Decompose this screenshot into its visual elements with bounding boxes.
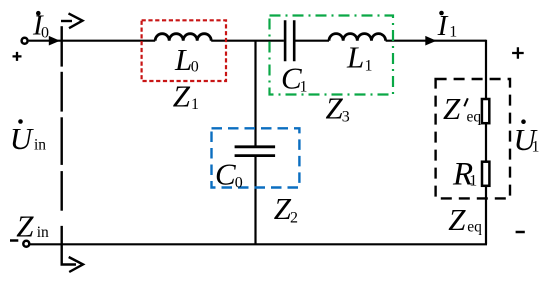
terminal (top-left input): [22, 38, 28, 44]
plus (top-left): [13, 52, 22, 61]
svg-text:0: 0: [191, 59, 199, 76]
box Zeq (black dashed): [436, 79, 510, 198]
inductor L1: [329, 34, 386, 41]
box Z3 (green dash-dot): [270, 16, 394, 95]
minus (bottom-right): [516, 231, 525, 234]
inductor L0: [155, 34, 211, 41]
capacitor C0: [235, 147, 276, 156]
Zin probe line dash segment 2: [61, 72, 63, 112]
svg-text:0: 0: [41, 24, 49, 41]
wire C0 branch lower: [254, 156, 256, 245]
svg-text:Z: Z: [16, 209, 34, 244]
svg-text:1: 1: [300, 79, 308, 96]
Zin measurement arrow (top): [61, 20, 72, 22]
wire right rail (down): [485, 40, 487, 245]
box Z2 (blue dashed): [212, 128, 300, 187]
box Z1 (red dashed): [142, 20, 226, 81]
svg-text:eq: eq: [467, 219, 482, 236]
Zin measurement arrow (bottom): [69, 257, 83, 272]
resistor R1: [482, 162, 489, 186]
wire L1 to right corner: [386, 40, 486, 42]
current arrow I0: [49, 36, 60, 46]
svg-text:Z: Z: [443, 91, 461, 126]
svg-text:1: 1: [191, 96, 199, 113]
Zin probe line dash segment 1: [61, 26, 63, 66]
svg-text:2: 2: [290, 210, 298, 227]
svg-text:Z: Z: [326, 90, 344, 125]
svg-text:0: 0: [235, 174, 243, 191]
svg-text:C: C: [215, 157, 236, 192]
svg-text:L: L: [346, 40, 364, 75]
svg-text:1: 1: [449, 24, 457, 41]
svg-text:L: L: [174, 42, 192, 77]
svg-text:1: 1: [532, 139, 540, 156]
wire between C1 and L1: [295, 40, 329, 42]
minus (bottom-left): [10, 239, 18, 242]
wire C0 branch upper: [254, 41, 256, 147]
svg-text:1: 1: [469, 173, 477, 190]
terminal (bottom-left input): [23, 241, 29, 247]
svg-text:U: U: [10, 121, 35, 156]
resistor Z'eq: [482, 99, 489, 123]
svg-text:Z: Z: [448, 202, 466, 237]
Zin probe line dash segment 3: [61, 117, 63, 165]
svg-text:Z: Z: [173, 78, 191, 113]
svg-text:3: 3: [342, 109, 350, 126]
plus (top-right): [512, 47, 524, 59]
svg-text:in: in: [34, 137, 46, 154]
svg-text:in: in: [37, 224, 49, 241]
svg-text:eq: eq: [467, 109, 482, 126]
Zin probe line dash segment 5 with corner: [62, 226, 76, 265]
current arrow I1: [425, 36, 436, 46]
capacitor C1: [285, 20, 294, 61]
wire bottom rail: [30, 243, 487, 245]
svg-text:1: 1: [365, 58, 373, 75]
wire top rail left segment: [29, 40, 156, 42]
Zin probe line dash segment 4: [61, 171, 63, 211]
wire between L0 and C1: [211, 40, 284, 42]
